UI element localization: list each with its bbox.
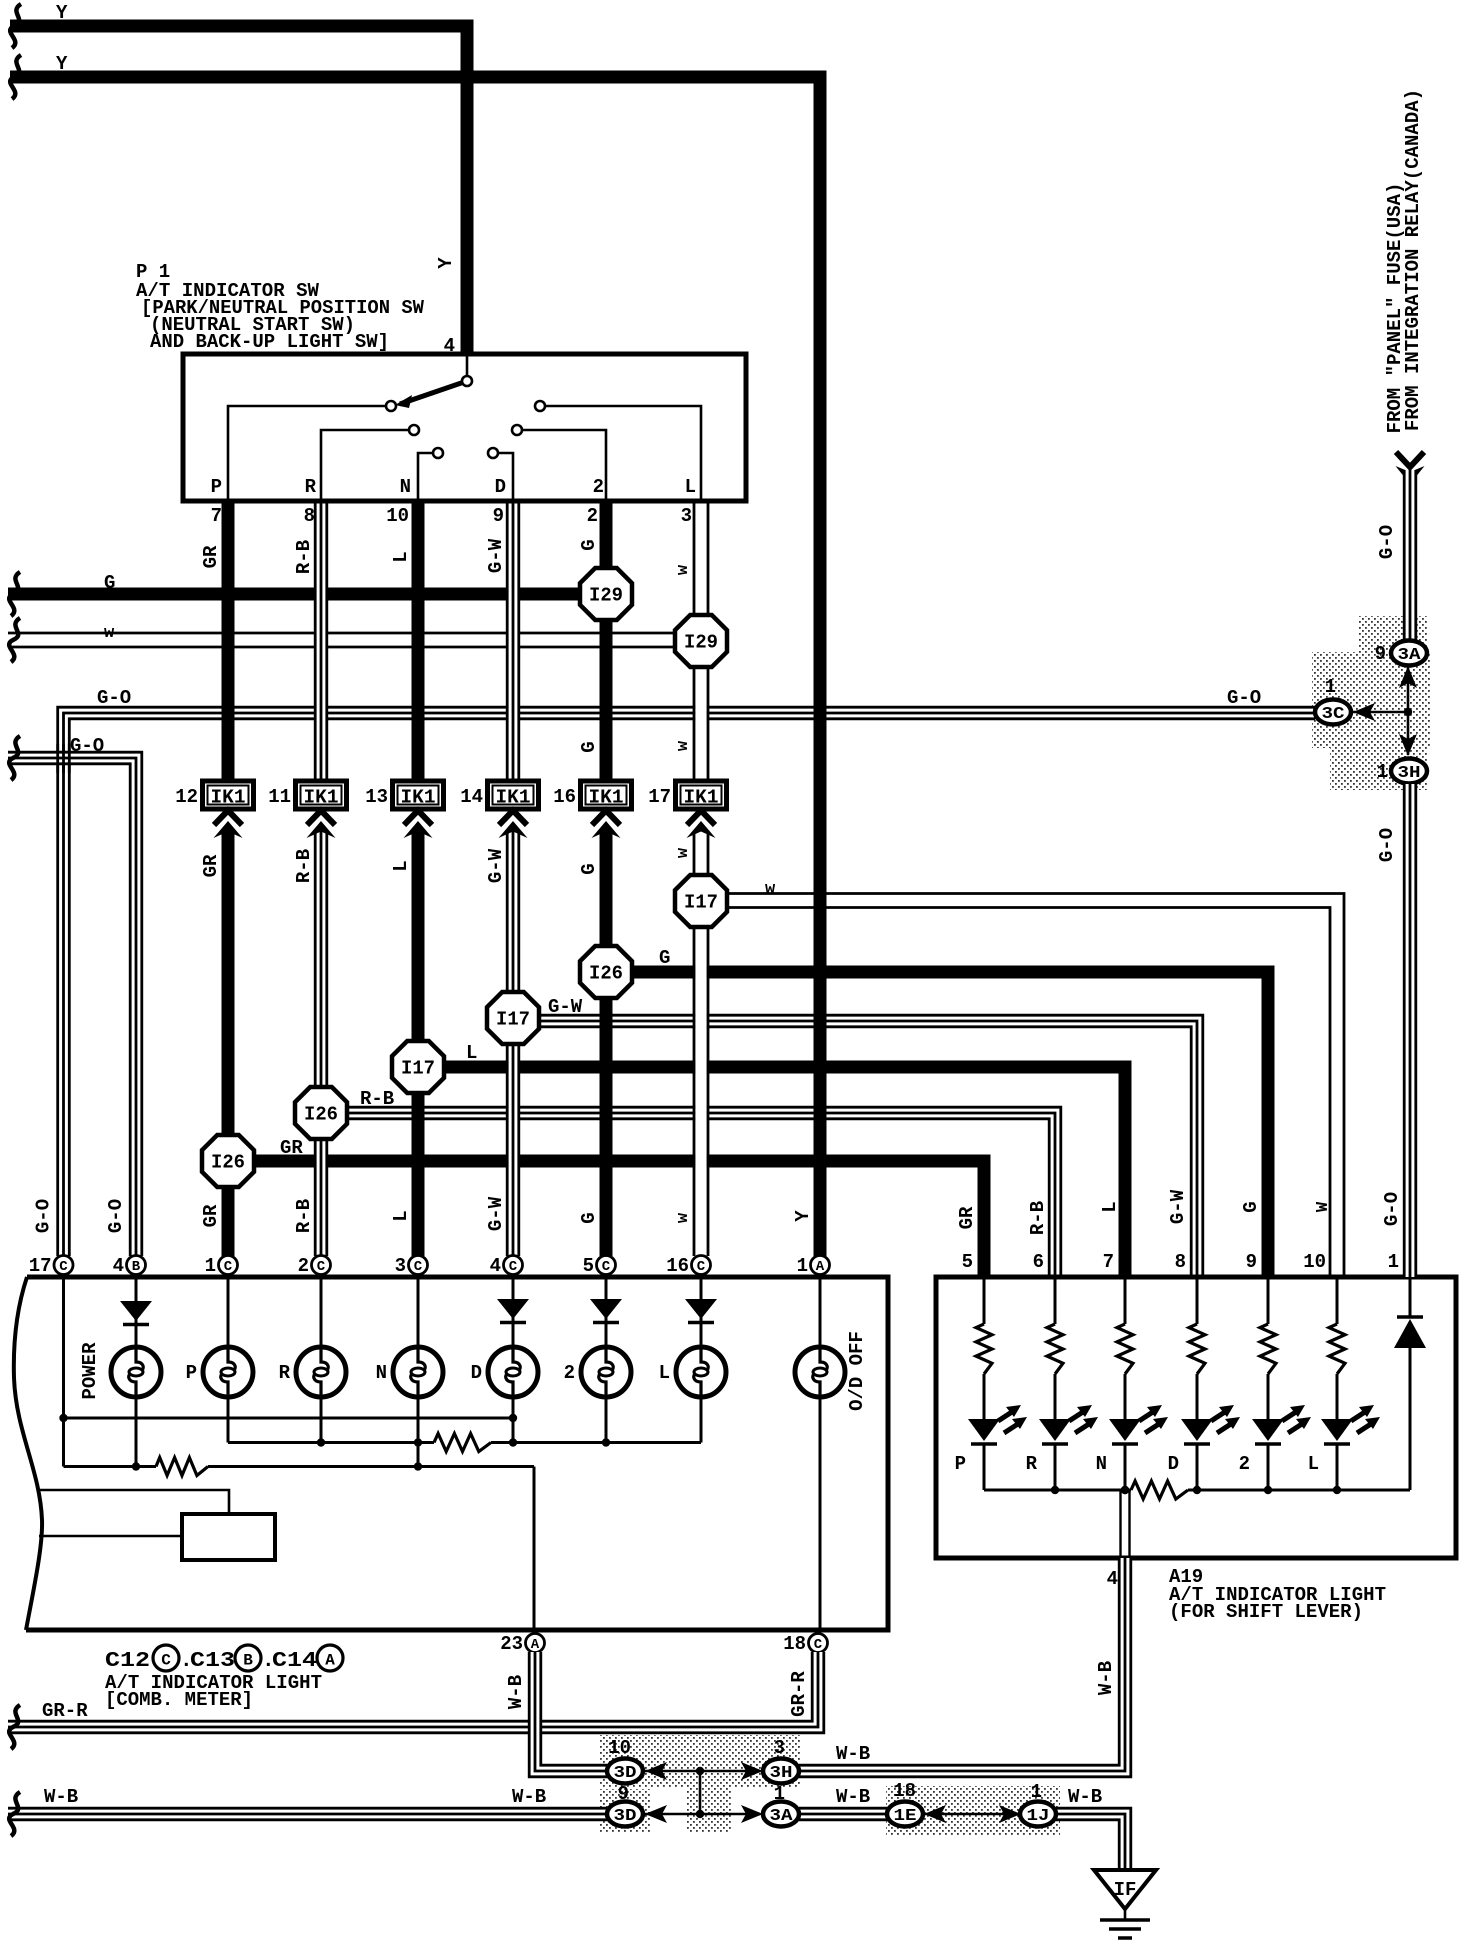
diode on L column [685, 1299, 717, 1323]
feed arrow down [1396, 452, 1425, 484]
svg-text:W-B: W-B [836, 1786, 870, 1808]
svg-text:A: A [531, 1637, 540, 1653]
label R-B branch [360, 1088, 394, 1110]
shaded splice area right (around 3A/3C/3H) [1312, 616, 1430, 790]
wire G-O from 3H down to A19 pin 1 [1403, 784, 1417, 1277]
svg-text:IK1: IK1 [589, 787, 624, 809]
svg-text:13: 13 [365, 786, 388, 808]
label w branch [765, 880, 776, 899]
A19 pin 6 [1033, 1251, 1044, 1273]
svg-text:C12: C12 [105, 1650, 150, 1673]
svg-text:1: 1 [1031, 1781, 1042, 1803]
svg-text:4: 4 [113, 1255, 124, 1277]
comb meter pin 1 (A) [797, 1255, 830, 1277]
svg-text:10: 10 [1303, 1251, 1326, 1273]
label A/T INDICATOR LIGHT [COMB. METER] [105, 1672, 322, 1711]
svg-text:R-B: R-B [293, 540, 315, 574]
wire L branch from I17 to A19 pin 7 [444, 1067, 1125, 1277]
label W feed [104, 624, 115, 643]
svg-text:14: 14 [460, 786, 483, 808]
svg-text:1: 1 [774, 1783, 785, 1805]
svg-text:C14: C14 [272, 1650, 317, 1673]
svg-text:G-O: G-O [97, 687, 131, 709]
A19 bottom bus with resistor [984, 1481, 1410, 1499]
svg-text:GR: GR [280, 1137, 303, 1159]
svg-text:9: 9 [1246, 1251, 1257, 1273]
comb meter pin 3 (C) [395, 1255, 428, 1277]
svg-text:FROM INTEGRATION RELAY(CANADA): FROM INTEGRATION RELAY(CANADA) [1402, 89, 1424, 431]
wire W branch from I17 to A19 pin 10 [727, 894, 1344, 1278]
svg-text:N: N [376, 1362, 387, 1384]
connector IK1 pin 12 [175, 781, 253, 809]
arrow into 3A [1399, 666, 1417, 688]
wire from bus 3 down to pin 23A [533, 1467, 536, 1634]
svg-text:w: w [104, 624, 115, 643]
svg-text:W-B: W-B [505, 1675, 527, 1709]
svg-text:C: C [161, 1652, 171, 1670]
wire W-B from A19 pin 4 down [0, 0, 1, 1]
break symbol W [9, 618, 20, 662]
label L branch [466, 1042, 477, 1064]
connector IK1 pin 16 [553, 781, 631, 809]
switch pin numbers [211, 505, 692, 527]
label G branch [659, 947, 670, 969]
switch contact 2 and wire [512, 425, 606, 501]
svg-text:W-B: W-B [1068, 1786, 1102, 1808]
svg-text:w: w [674, 847, 693, 858]
svg-text:1: 1 [1388, 1251, 1399, 1273]
wire Y feed 2 to comb meter pin 1A [10, 77, 820, 1256]
A19 diode on pin 1 column [1394, 1279, 1426, 1490]
svg-text:G-O: G-O [1381, 1192, 1403, 1226]
svg-text:G: G [578, 539, 600, 550]
diode on D column [497, 1299, 529, 1323]
arrow into 3C [1353, 703, 1375, 721]
svg-text:G-O: G-O [1376, 525, 1398, 559]
connector 3A pin 1 [763, 1783, 799, 1827]
svg-text:L: L [685, 476, 696, 498]
A19 LED L [1308, 1405, 1380, 1490]
label G-W branch [548, 996, 583, 1018]
svg-text:7: 7 [1103, 1251, 1114, 1273]
label W-B 23A rotated [505, 1675, 527, 1709]
switch position labels [211, 476, 696, 498]
break symbol G-O2 [9, 736, 20, 780]
connector IK1 pin 13 [365, 781, 443, 809]
A19 pin 9 [1246, 1251, 1257, 1273]
switch contact P and wire [228, 401, 396, 501]
wire G-O horizontal to junction 3C [58, 707, 1315, 1256]
junction I29 on G column [580, 568, 632, 620]
break symbol Y2 [10, 55, 21, 99]
svg-text:I17: I17 [496, 1009, 530, 1031]
svg-text:5: 5 [583, 1255, 594, 1277]
junction dot 3-way [1404, 708, 1412, 716]
svg-text:G-W: G-W [548, 996, 583, 1018]
junction I17 on L column [392, 1041, 444, 1093]
svg-text:R-B: R-B [293, 849, 315, 883]
svg-text:A: A [816, 1259, 825, 1275]
svg-text:G-W: G-W [485, 538, 507, 573]
svg-text:I17: I17 [684, 892, 718, 914]
svg-text:R-B: R-B [293, 1199, 315, 1233]
label G-O2 [70, 735, 104, 757]
svg-text:B: B [243, 1652, 253, 1670]
wire W horizontal feed [8, 633, 678, 647]
connector arrow IK1 16 [592, 811, 621, 839]
svg-text:G-O: G-O [1376, 828, 1398, 862]
svg-text:GR-R: GR-R [788, 1671, 810, 1717]
svg-text:[COMB. METER]: [COMB. METER] [105, 1689, 253, 1711]
color labels above IK1 row (G and W columns) [578, 740, 693, 753]
A19 pin 5 [962, 1251, 973, 1273]
svg-text:IK1: IK1 [401, 787, 436, 809]
svg-text:1J: 1J [1027, 1807, 1050, 1826]
comb meter internal column O/D OFF [819, 1277, 822, 1630]
svg-text:1: 1 [797, 1255, 808, 1277]
label P 1 A/T INDICATOR SW [136, 261, 425, 353]
break symbol G [9, 572, 20, 616]
wire G column (switch pin 2 to comb meter pin 5) [600, 501, 613, 1256]
junction dots between rows [696, 1767, 704, 1818]
svg-text:GR: GR [200, 1204, 222, 1227]
svg-text:I26: I26 [211, 1152, 245, 1174]
svg-text:I29: I29 [589, 585, 623, 607]
svg-text:G-O: G-O [33, 1199, 55, 1233]
svg-text:I17: I17 [401, 1058, 435, 1080]
svg-text:C: C [697, 1259, 706, 1275]
row2 connecting line with arrows [645, 1805, 763, 1823]
svg-text:N: N [1096, 1453, 1107, 1475]
comb meter pin 17 (C) [29, 1255, 73, 1277]
A19 resistor 2 [1260, 1279, 1276, 1419]
lamp O/D OFF [795, 1331, 868, 1411]
diode on 2 column [590, 1299, 622, 1323]
comb meter pin 4 (B) [113, 1255, 146, 1277]
svg-text:10: 10 [386, 505, 409, 527]
lamp P [186, 1347, 253, 1397]
label FROM PANEL FUSE / INTEGRATION RELAY [1384, 89, 1424, 433]
svg-text:G-O: G-O [1227, 687, 1261, 709]
svg-text:G-O: G-O [105, 1199, 127, 1233]
wire G horizontal feed [8, 588, 584, 601]
svg-text:GR: GR [200, 854, 222, 877]
wire GR-R from comb meter pin 18 [8, 1652, 824, 1733]
label W-B after 3A [836, 1786, 870, 1808]
svg-text:D: D [495, 476, 506, 498]
svg-text:G: G [578, 1212, 600, 1223]
comb meter pin 23 (A) [500, 1633, 544, 1655]
svg-text:3A: 3A [770, 1807, 794, 1826]
svg-text:Y: Y [792, 1210, 814, 1222]
svg-text:8: 8 [1175, 1251, 1186, 1273]
wire W column (switch pin 3 to comb meter pin 16) [694, 501, 708, 1256]
break symbol GR-R [9, 1705, 20, 1749]
svg-text:2: 2 [1239, 1453, 1250, 1475]
svg-text:2: 2 [298, 1255, 309, 1277]
svg-text:W-B: W-B [1095, 1661, 1117, 1695]
break symbol Y1 [10, 4, 21, 48]
wire R-B branch from I26 to A19 pin 6 [347, 1107, 1061, 1277]
wire G-W column (switch pin 9 to comb meter pin 4) [506, 501, 520, 1256]
svg-text:5: 5 [962, 1251, 973, 1273]
label A19 designation [1169, 1566, 1386, 1623]
svg-text:(FOR SHIFT LEVER): (FOR SHIFT LEVER) [1169, 1601, 1363, 1623]
svg-text:L: L [390, 1210, 412, 1221]
wire W-B between 3A and 1E [799, 1807, 887, 1821]
wire rheostat left [39, 1535, 182, 1538]
svg-text:R: R [1026, 1453, 1038, 1475]
wire G-W branch from I17 to A19 pin 8 [539, 1015, 1203, 1277]
svg-text:P: P [211, 476, 222, 498]
svg-text:3H: 3H [1398, 764, 1421, 783]
svg-text:L: L [1099, 1201, 1121, 1212]
junction I17 on W column [675, 875, 727, 927]
A19 resistor D [1189, 1279, 1205, 1419]
lamp N [376, 1347, 443, 1397]
svg-text:G: G [104, 572, 115, 594]
svg-text:G-W: G-W [1167, 1189, 1189, 1224]
junction I26 on GR column [202, 1135, 254, 1187]
connector 3H pin 3 [763, 1737, 799, 1784]
svg-text:C: C [414, 1259, 423, 1275]
svg-text:C: C [602, 1259, 611, 1275]
rheostat sub box [182, 1514, 275, 1560]
connector 3A pin 9 [1375, 641, 1427, 666]
svg-text:18: 18 [893, 1780, 916, 1802]
A19 LED D [1168, 1405, 1240, 1490]
comb meter pin 5 (C) [583, 1255, 616, 1277]
svg-text:W-B: W-B [836, 1743, 870, 1765]
svg-text:10: 10 [608, 1737, 631, 1759]
svg-text:G: G [1240, 1201, 1262, 1212]
svg-text:G: G [659, 947, 670, 969]
svg-text:11: 11 [268, 786, 291, 808]
svg-text:4: 4 [1107, 1568, 1118, 1590]
svg-text:3: 3 [681, 505, 692, 527]
wire W-B from 1J to ground [1056, 1808, 1131, 1870]
svg-text:B: B [132, 1259, 141, 1275]
svg-text:9: 9 [1375, 643, 1386, 665]
A19 LED R [1026, 1405, 1098, 1490]
label G-O left [97, 687, 131, 709]
label W-B after 1J [1068, 1786, 1102, 1808]
wire rheostat top [39, 1490, 229, 1514]
junction I26 on G column [580, 946, 632, 998]
connector IK1 pin 14 [460, 781, 538, 809]
junction I29 on W column [675, 615, 727, 667]
svg-text:GR-R: GR-R [42, 1700, 88, 1722]
comb meter internal column 17C [62, 1277, 65, 1467]
svg-text:G-W: G-W [485, 1196, 507, 1231]
A19 pin 10 [1303, 1251, 1326, 1273]
svg-text:17: 17 [648, 786, 671, 808]
switch contact N and wire [418, 448, 443, 501]
A19 LED N [1096, 1405, 1168, 1490]
svg-text:16: 16 [666, 1255, 689, 1277]
svg-text:9: 9 [618, 1783, 629, 1805]
wire GR column (switch pin 7 to comb meter pin 1) [222, 501, 235, 1256]
svg-text:POWER: POWER [79, 1342, 101, 1400]
svg-text:3H: 3H [770, 1764, 793, 1783]
connector arrow IK1 11 [307, 811, 336, 839]
connector 1E pin 18 [887, 1780, 923, 1827]
svg-text:1: 1 [205, 1255, 216, 1277]
svg-text:G: G [578, 863, 600, 874]
svg-text:2: 2 [587, 505, 598, 527]
shaded splice area bottom (around 1E/1J) [886, 1786, 1060, 1836]
A19 pin 8 [1175, 1251, 1186, 1273]
label Y1 [56, 2, 68, 24]
lamp R [279, 1347, 346, 1397]
lamp L [659, 1347, 726, 1397]
wire GR branch from I26 to A19 pin 5 [254, 1161, 984, 1277]
svg-text:w: w [674, 1212, 693, 1223]
connector 3H pin 1 [1377, 759, 1427, 784]
label Y2 [56, 53, 68, 75]
label G-O right near 3C [1227, 687, 1261, 709]
comb meter pin 2 (C) [298, 1255, 331, 1277]
wire G-O crossing restore [58, 744, 70, 773]
wire G branch from I26 to A19 pin 9 [632, 972, 1268, 1277]
label pin 4 of switch [444, 335, 455, 357]
A19 ground lead inside box (pin 4) [1121, 1486, 1130, 1558]
svg-text:18: 18 [783, 1633, 806, 1655]
A19 LED 2 [1239, 1405, 1311, 1490]
svg-text:12: 12 [175, 786, 198, 808]
label A19 pin 4 [1107, 1568, 1118, 1590]
connector 3D pin 9 [607, 1783, 643, 1827]
svg-text:G: G [578, 741, 600, 752]
wire L column (switch pin 10 to comb meter pin 3) [412, 501, 425, 1256]
svg-text:17: 17 [29, 1255, 52, 1277]
A19 pin 1 [1388, 1251, 1399, 1273]
wire Y feed 1 (battery) [10, 26, 467, 354]
label GR-R rotated [788, 1671, 810, 1717]
comb meter pin 16 (C) [666, 1255, 710, 1277]
lamp POWER [79, 1342, 161, 1400]
comb meter bus 2 with resistor [228, 1434, 701, 1452]
svg-text:23: 23 [500, 1633, 523, 1655]
svg-text:R: R [305, 476, 317, 498]
svg-text:D: D [471, 1362, 482, 1384]
switch movable arm [395, 381, 467, 408]
svg-text:W: W [1314, 1201, 1333, 1212]
svg-text:O/D OFF: O/D OFF [846, 1331, 868, 1411]
svg-text:R-B: R-B [1027, 1201, 1049, 1235]
svg-text:1E: 1E [894, 1807, 917, 1826]
svg-text:L: L [390, 860, 412, 871]
break symbol W-B [9, 1792, 20, 1836]
junction I26 on R-B column [295, 1087, 347, 1139]
ground IF [1094, 1870, 1156, 1938]
color labels above comb meter pins [33, 1196, 815, 1233]
svg-text:16: 16 [553, 786, 576, 808]
comb meter pin 1 (C) [205, 1255, 238, 1277]
comb meter pin 4 (C) [490, 1255, 523, 1277]
switch contact R and wire [321, 425, 419, 501]
label W-B row2 left [44, 1786, 78, 1808]
switch contact L and wire [535, 401, 701, 501]
label C12 C13 C14 comb meter [105, 1645, 343, 1673]
svg-text:2: 2 [564, 1362, 575, 1384]
A19 pin 7 [1103, 1251, 1114, 1273]
comb meter internal columns P R N [228, 1277, 418, 1467]
svg-text:C: C [509, 1259, 518, 1275]
svg-text:w: w [674, 740, 693, 751]
connector arrow IK1 14 [499, 811, 528, 839]
label GR-R left [42, 1700, 88, 1722]
svg-text:W-B: W-B [512, 1786, 546, 1808]
svg-text:IK1: IK1 [211, 787, 246, 809]
svg-text:6: 6 [1033, 1251, 1044, 1273]
svg-text:w: w [765, 880, 776, 899]
label W-B A19 [1095, 1661, 1117, 1695]
junction line 3A to 3H with branch to 3C [1353, 665, 1408, 755]
svg-text:I26: I26 [589, 963, 623, 985]
label GR branch [280, 1137, 303, 1159]
label G-O feed [1376, 525, 1398, 559]
svg-text:3: 3 [774, 1737, 785, 1759]
label G-O lower [1376, 828, 1398, 862]
connector arrow IK1 12 [214, 811, 243, 839]
svg-text:L: L [466, 1042, 477, 1064]
comb meter bus 3 with resistor [64, 1418, 535, 1476]
svg-text:G-O: G-O [70, 735, 104, 757]
A19 LED P [955, 1405, 1027, 1490]
connector 3D pin 10 [607, 1737, 643, 1784]
connector arrow IK1 17 [687, 811, 716, 839]
A19 resistor N [1117, 1279, 1133, 1419]
svg-text:1: 1 [1325, 676, 1336, 698]
A19 resistor R [1047, 1279, 1063, 1419]
wire W-B from comb meter pin 23 to 3D [529, 1652, 607, 1777]
svg-text:9: 9 [493, 505, 504, 527]
comb meter pin 18 (C) [783, 1633, 827, 1655]
junction I17 on G-W column [487, 992, 539, 1044]
svg-text:3A: 3A [1398, 646, 1422, 665]
comb meter box outline [14, 1277, 888, 1630]
wire G-O feed down to 3A [1403, 470, 1417, 641]
svg-text:GR: GR [956, 1206, 978, 1229]
row1 connecting line with arrows [645, 1762, 763, 1780]
svg-text:P: P [186, 1362, 197, 1384]
svg-text:A: A [325, 1652, 335, 1670]
svg-text:IK1: IK1 [684, 787, 719, 809]
connector 3C pin 1 [1315, 676, 1351, 725]
svg-text:C: C [317, 1259, 326, 1275]
diode on POWER column [120, 1301, 152, 1325]
wire G-O second feed [8, 752, 142, 1256]
svg-text:8: 8 [304, 505, 315, 527]
label G feed [104, 572, 115, 594]
svg-text:W-B: W-B [44, 1786, 78, 1808]
svg-text:3D: 3D [614, 1807, 637, 1826]
comb meter internal columns D 2 L with diodes [513, 1277, 701, 1443]
label Y at switch pin 4 [435, 257, 457, 269]
svg-text:P: P [955, 1453, 966, 1475]
color labels below switch [200, 538, 693, 575]
row2 1E-1J connecting line with arrows [924, 1805, 1021, 1823]
svg-text:2: 2 [593, 476, 604, 498]
svg-text:C: C [224, 1259, 233, 1275]
connector IK1 pin 11 [268, 781, 346, 809]
svg-text:7: 7 [211, 505, 222, 527]
lamp 2 [564, 1347, 631, 1397]
svg-text:R: R [279, 1362, 291, 1384]
switch contact pivot [462, 376, 472, 386]
svg-text:IF: IF [1114, 1879, 1137, 1901]
